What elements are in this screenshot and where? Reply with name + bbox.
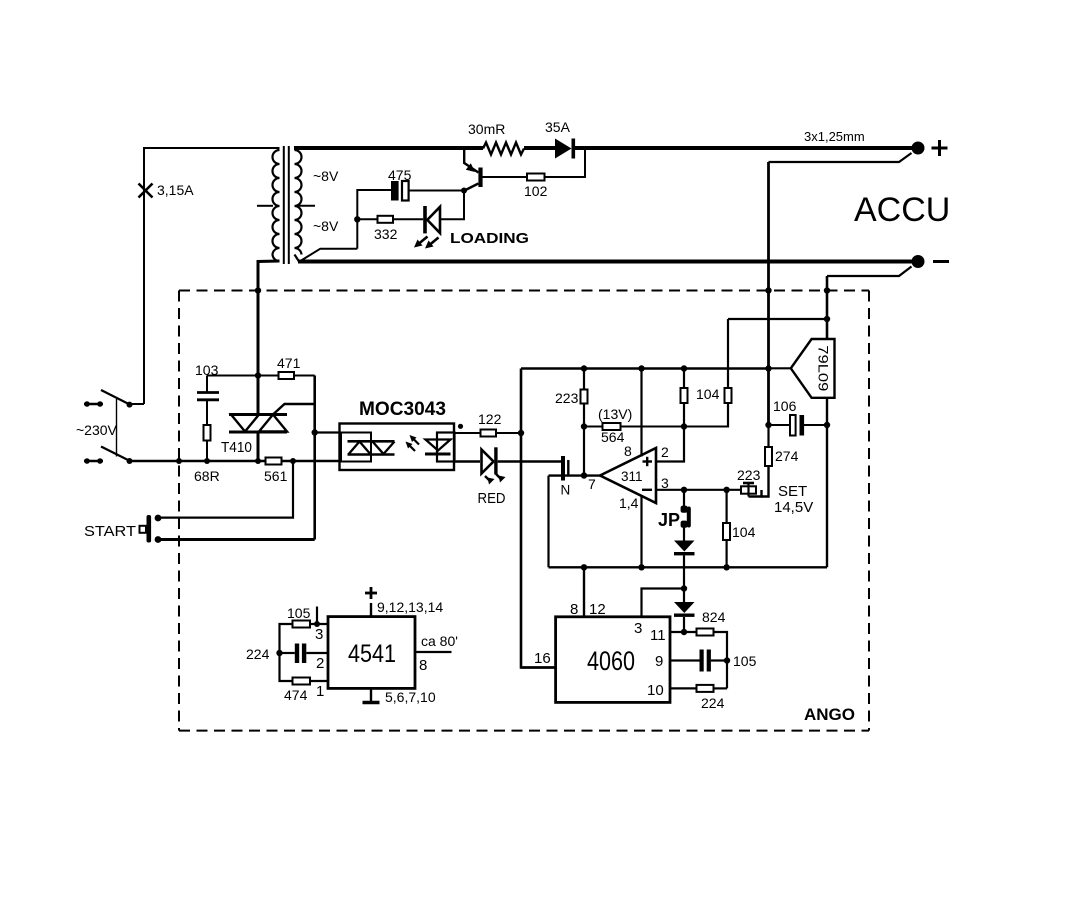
- switch S1a lever: [101, 390, 130, 405]
- wire 4541 vdd pin: [370, 603, 372, 617]
- resistor 274: [765, 447, 772, 466]
- capacitor 224 timer: [295, 644, 299, 664]
- svg-text:105: 105: [733, 653, 757, 669]
- wire 223 vertical: [583, 369, 585, 390]
- wire 224 to pin2: [306, 652, 328, 654]
- transformer TR1 primary winding: [273, 150, 280, 261]
- wire 4060 pin16: [521, 666, 556, 668]
- svg-text:(13V): (13V): [598, 406, 632, 422]
- node 223/564 junction: [581, 423, 587, 429]
- ground symbol 4541: [363, 701, 380, 705]
- optocoupler U2 left tab: [341, 433, 371, 462]
- wire MOC led cathode line: [454, 460, 480, 463]
- svg-text:274: 274: [775, 448, 799, 464]
- wire pin1,4 ground: [640, 495, 642, 567]
- capacitor 103: [197, 393, 219, 400]
- svg-text:30mR: 30mR: [468, 121, 505, 137]
- transformer TR1 primary tap stub: [257, 205, 273, 207]
- svg-text:79L09: 79L09: [816, 345, 832, 391]
- svg-text:3: 3: [315, 626, 323, 643]
- svg-text:224: 224: [246, 646, 270, 662]
- resistor 104 right: [725, 388, 732, 403]
- svg-text:3x1,25mm: 3x1,25mm: [804, 129, 865, 144]
- transistor N channel bar: [567, 460, 569, 477]
- wire pin2 to 564 node: [656, 427, 684, 462]
- optocoupler U2 phototriac bottom bar: [348, 453, 395, 456]
- node 332 junction: [354, 216, 360, 222]
- transformer TR1 secondary center tap stub: [296, 205, 315, 207]
- svg-text:1,4: 1,4: [619, 495, 639, 511]
- wire minus sense line: [827, 267, 912, 277]
- node left net 224 junction: [276, 650, 282, 656]
- svg-text:106: 106: [773, 398, 797, 414]
- svg-text:3: 3: [634, 620, 642, 637]
- wire 103 to 68R: [206, 376, 208, 393]
- switch S1 coupling link: [116, 399, 118, 457]
- wire START top to 561 node: [160, 461, 293, 518]
- triac T410 left triangle: [231, 415, 259, 432]
- wire 332 junction down: [356, 219, 358, 248]
- switch S1a contact stubs: [84, 403, 103, 405]
- resistor 68R: [204, 425, 211, 441]
- svg-text:104: 104: [732, 524, 756, 540]
- svg-text:223: 223: [737, 467, 761, 483]
- svg-text:16: 16: [534, 650, 551, 667]
- node plus line 106 junction: [765, 422, 771, 428]
- node rail 4060 supply: [581, 564, 587, 570]
- jumper JP: [681, 506, 688, 513]
- wire N source link to ground rail: [547, 476, 549, 568]
- svg-text:~230V: ~230V: [76, 422, 118, 438]
- transistor Q1 base bar: [478, 168, 482, 188]
- wire gate node vertical: [313, 376, 316, 540]
- resistor 561: [266, 458, 282, 465]
- wire D2 to pin11: [683, 617, 685, 632]
- transistor Q1 emitter from plus bus: [464, 150, 478, 173]
- svg-text:14,5V: 14,5V: [774, 499, 813, 516]
- svg-text:T410: T410: [221, 439, 252, 456]
- resistor 474: [293, 678, 311, 685]
- svg-text:4541: 4541: [348, 640, 396, 668]
- wire supply vertical 122/16: [521, 369, 556, 668]
- optocoupler U2 phototriac up triangle: [349, 442, 371, 455]
- node collector junction: [461, 188, 467, 194]
- trimmer 223 wiper: [747, 483, 749, 497]
- node rail 223 junction: [581, 365, 587, 371]
- svg-text:RED: RED: [478, 490, 506, 507]
- resistor 223 pullup: [581, 390, 588, 404]
- wire 105 to osc vertical: [711, 659, 727, 661]
- wire 104 right vertical to minus row: [727, 319, 729, 388]
- optocoupler U2 led triangle: [426, 440, 451, 451]
- wire 68R to mains line: [206, 441, 208, 462]
- IC U4 4060 box: [556, 617, 670, 703]
- svg-text:MOC3043: MOC3043: [359, 399, 446, 420]
- transistor Q1 collector diagonal: [464, 184, 479, 192]
- svg-text:~8V: ~8V: [313, 168, 339, 184]
- wire 13V rail: [521, 367, 769, 370]
- wire 4541 gnd pin: [370, 688, 372, 701]
- resistor 105 timer: [293, 621, 311, 628]
- symbol plus 4541: [365, 587, 377, 599]
- svg-text:5,6,7,10: 5,6,7,10: [385, 689, 436, 705]
- IC U6 4541 box: [328, 617, 415, 689]
- svg-text:474: 474: [284, 687, 308, 703]
- symbol minus input: [642, 489, 652, 491]
- diode D1: [674, 541, 695, 552]
- wire 4541 pin3 row: [310, 623, 328, 625]
- wire 4060 pin10: [670, 687, 697, 689]
- diode 35A: [555, 139, 572, 159]
- node rail pin1,4: [638, 564, 644, 570]
- wire gate node to MOC: [315, 431, 340, 433]
- capacitor 106: [790, 415, 796, 436]
- wire pin3 link to 4060: [642, 589, 685, 617]
- wire 824 to osc vertical: [714, 632, 728, 688]
- svg-text:3: 3: [661, 475, 669, 491]
- svg-text:2: 2: [316, 655, 324, 672]
- svg-text:3,15A: 3,15A: [157, 182, 194, 198]
- symbol minus sign: [933, 260, 949, 263]
- wire left net vertical: [280, 624, 293, 681]
- node T410 MT1 junction: [255, 458, 261, 464]
- wire plus bus to ACCU terminal: [575, 146, 918, 150]
- svg-text:102: 102: [524, 183, 548, 199]
- stub pin3: [316, 607, 318, 625]
- wire 122 to supply node: [496, 432, 521, 434]
- resistor 564: [603, 423, 621, 430]
- node minus row junction: [824, 316, 830, 322]
- svg-text:471: 471: [277, 355, 301, 371]
- transistor Q1 emitter arrowhead: [466, 163, 475, 172]
- wire 102 to bus after diode: [545, 150, 586, 177]
- wire 475 to transistor collector node: [409, 190, 464, 192]
- svg-text:~8V: ~8V: [313, 218, 339, 234]
- svg-text:332: 332: [374, 226, 398, 242]
- switch S1b contact stubs: [84, 460, 103, 462]
- wire plus line to 274: [767, 369, 770, 426]
- wire 79L09 out to rail: [769, 367, 791, 369]
- triac T410 top bar: [229, 413, 287, 416]
- svg-text:224: 224: [701, 695, 725, 711]
- op-amp U3 311 triangle: [600, 448, 656, 503]
- wire base lead: [482, 176, 528, 178]
- node pin11 diode junction: [681, 629, 687, 635]
- node border crossing live: [176, 458, 182, 464]
- node dashed border crossing plus sense: [765, 287, 771, 293]
- node rail 104 junction: [681, 365, 687, 371]
- wire 564 row: [584, 426, 603, 428]
- LED LOADING emission arrows: [419, 237, 439, 245]
- svg-text:564: 564: [601, 429, 625, 445]
- transistor N gate bar: [561, 456, 565, 481]
- node 561 to start junction: [290, 458, 296, 464]
- svg-text:ca 80': ca 80': [421, 633, 458, 649]
- trimmer 223 body: [741, 486, 756, 493]
- svg-text:223: 223: [555, 390, 579, 406]
- transformer TR1 secondary winding: [295, 150, 302, 255]
- wire T410 gate: [274, 404, 315, 414]
- optocoupler U2 phototriac top bar: [348, 440, 395, 443]
- trimmer 223 bottom link: [749, 490, 762, 497]
- svg-text:7: 7: [588, 476, 596, 492]
- fuse F1 3,15A: [139, 184, 153, 198]
- wire 471 row: [258, 375, 279, 377]
- svg-text:105: 105: [287, 605, 311, 621]
- wire T410 MT1 down: [257, 432, 260, 461]
- optocoupler U2 MOC3043 box: [340, 424, 455, 471]
- wire 474 to pin1: [310, 680, 328, 682]
- wire 104 left vertical: [683, 369, 685, 389]
- svg-text:68R: 68R: [194, 468, 220, 484]
- wire S1a to fuse: [130, 403, 145, 405]
- node 68R junction: [204, 458, 210, 464]
- node output junction: [581, 472, 587, 478]
- wire N drain to pin7: [549, 474, 601, 476]
- svg-text:10: 10: [647, 682, 664, 699]
- wire minus bus (thick): [298, 260, 918, 264]
- wire 4541 pin8 out: [415, 651, 452, 653]
- optocoupler U2 phototriac down triangle: [373, 442, 395, 455]
- svg-text:ACCU: ACCU: [854, 191, 950, 229]
- node pin3 104 junction: [723, 487, 729, 493]
- node rail 104 lower: [723, 564, 729, 570]
- switch S1b lever: [101, 447, 130, 462]
- svg-text:9,12,13,14: 9,12,13,14: [377, 599, 443, 615]
- button START bar: [147, 515, 152, 543]
- svg-text:561: 561: [264, 468, 288, 484]
- svg-text:ANGO: ANGO: [804, 705, 855, 724]
- svg-text:8: 8: [570, 601, 578, 618]
- transformer TR1 core: [284, 146, 289, 264]
- svg-text:311: 311: [621, 469, 643, 484]
- button START contact top: [155, 515, 162, 522]
- regulator U5 79L09 body: [791, 339, 835, 398]
- node secondary bottom / 332 branch diagonal: [300, 249, 358, 262]
- svg-text:JP: JP: [658, 510, 680, 530]
- wire 223 to output node: [583, 427, 585, 476]
- svg-text:8: 8: [419, 657, 427, 674]
- svg-text:122: 122: [478, 411, 502, 427]
- wire left net to 224 cap: [280, 652, 295, 654]
- svg-text:2: 2: [661, 444, 669, 460]
- button START contact bottom: [155, 536, 162, 543]
- wire mains top from fuse to transformer primary: [144, 148, 280, 404]
- resistor 471: [279, 372, 295, 379]
- wire RED cathode to FET gate: [498, 460, 562, 463]
- wire pin8 supply: [640, 369, 642, 457]
- svg-text:475: 475: [388, 167, 412, 183]
- optocoupler U2 pin1 dot: [458, 424, 463, 429]
- node rail plus sense junction: [765, 365, 771, 371]
- wire plus bus middle: [524, 146, 556, 150]
- wire transformer primary bottom to triac node: [258, 261, 280, 291]
- node osc 105 junction: [724, 657, 730, 663]
- optocoupler U2 right tab: [437, 433, 455, 462]
- wire D1 to pin3 node: [683, 555, 685, 588]
- svg-text:12: 12: [589, 601, 606, 618]
- svg-text:START: START: [84, 523, 136, 540]
- node pin3 stub junction: [314, 621, 320, 627]
- wire 332 to junction: [357, 218, 377, 220]
- symbol plus sign: [932, 140, 948, 156]
- optocoupler U2 led arrows: [409, 438, 420, 451]
- LED LOADING triangle: [427, 207, 440, 233]
- wire ground rail: [549, 566, 828, 568]
- wire pin3 row: [656, 489, 741, 491]
- wire link to diode D2: [683, 589, 685, 603]
- resistor 224 osc: [697, 685, 714, 692]
- optocoupler U2 led bar: [425, 453, 451, 456]
- wire 106 row: [769, 424, 791, 426]
- wire triac supply vertical: [257, 291, 260, 415]
- resistor 104 lower: [723, 523, 730, 540]
- terminal ACCU plus: [912, 142, 925, 155]
- LED RED triangle: [482, 450, 494, 474]
- svg-text:SET: SET: [778, 483, 807, 500]
- node 122 supply junction: [518, 430, 524, 436]
- svg-text:8: 8: [624, 443, 632, 459]
- wire JP to diode: [683, 490, 685, 506]
- svg-text:104: 104: [696, 386, 720, 402]
- capacitor 475: [391, 181, 399, 201]
- resistor 824: [697, 629, 714, 636]
- LED RED emission arrows: [485, 474, 502, 482]
- wire plus bus (thick): [294, 146, 483, 150]
- terminal ACCU minus: [912, 255, 925, 268]
- wire 4060 pin11: [670, 631, 697, 633]
- node 564/pin2 junction: [681, 423, 687, 429]
- wire mains live line: [130, 460, 341, 463]
- resistor 30mR (shunt): [483, 143, 524, 155]
- wire MOC pin to 122: [454, 432, 481, 434]
- wire 332 to LED: [393, 218, 423, 220]
- svg-text:9: 9: [655, 653, 663, 670]
- node dashed border crossing minus sense: [824, 287, 830, 293]
- svg-text:1: 1: [316, 683, 324, 700]
- node 106 right junction: [824, 422, 830, 428]
- node pin3 JP junction: [681, 487, 687, 493]
- node 103/471 row junction: [255, 372, 261, 378]
- svg-text:N: N: [561, 483, 571, 498]
- triac T410 right triangle: [259, 415, 287, 432]
- wire minus sense row: [728, 318, 827, 320]
- wire 274 to trimmer: [762, 466, 769, 497]
- wire START bottom to gate node: [160, 538, 315, 541]
- button START plunger square: [140, 526, 147, 533]
- node rail pin8 junction: [638, 365, 644, 371]
- dashed enclosure border ANGO: [179, 291, 869, 731]
- svg-text:11: 11: [650, 627, 666, 644]
- resistor 102: [527, 174, 545, 181]
- wire 79L09 bottom: [826, 398, 828, 568]
- capacitor 105 osc: [700, 650, 704, 672]
- resistor 104 left: [681, 388, 688, 403]
- capacitor 475 wire left: [357, 190, 391, 219]
- LED LOADING cathode bar: [423, 206, 427, 233]
- wire LED cathode to collector node: [440, 191, 464, 220]
- resistor 332: [378, 216, 394, 223]
- wire secondary bottom diagonal to minus bus: [295, 255, 300, 262]
- LED RED cathode bar: [494, 447, 497, 474]
- svg-text:35A: 35A: [545, 119, 571, 135]
- svg-text:4060: 4060: [587, 646, 635, 676]
- symbol plus input: [643, 457, 653, 466]
- resistor 122: [481, 430, 497, 437]
- node diode chain pin3 link: [681, 585, 687, 591]
- wire 4060 pin9: [670, 659, 700, 661]
- wire 224 to osc vertical: [714, 687, 728, 689]
- svg-text:824: 824: [702, 609, 726, 625]
- wire 4060 pin8,12 supply: [583, 567, 585, 617]
- triac T410 bottom bar: [229, 431, 287, 434]
- wire 103 row: [207, 375, 258, 377]
- svg-text:LOADING: LOADING: [450, 230, 529, 247]
- wire plus sense line: [769, 153, 912, 162]
- diode D2: [674, 602, 695, 613]
- node gate MOC junction: [312, 429, 318, 435]
- wire 104 lower vertical: [725, 490, 727, 523]
- node dashed border crossing primary: [255, 287, 261, 293]
